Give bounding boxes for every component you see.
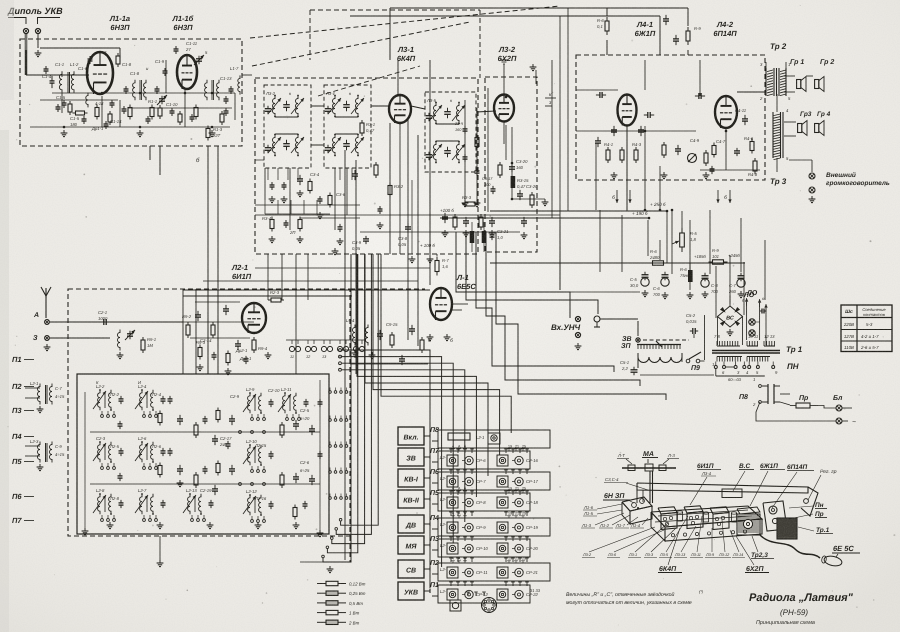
svg-text:R-9: R-9 — [694, 26, 701, 31]
svg-text:60—03: 60—03 — [728, 377, 742, 382]
svg-text:R9-1: R9-1 — [147, 337, 156, 342]
svg-text:С1-9: С1-9 — [155, 59, 165, 64]
svg-text:1,0: 1,0 — [497, 235, 503, 240]
svg-text:Гр3: Гр3 — [800, 111, 812, 118]
svg-text:R1-1: R1-1 — [148, 99, 157, 104]
svg-text:L2-6: L2-6 — [138, 436, 147, 441]
svg-text:0,12 Вт: 0,12 Вт — [349, 582, 366, 587]
svg-text:R-9: R-9 — [712, 248, 719, 253]
svg-text:25: 25 — [522, 557, 526, 561]
svg-text:ЗП: ЗП — [621, 343, 631, 350]
svg-text:С3-17: С3-17 — [482, 177, 493, 181]
svg-text:СР-6: СР-6 — [476, 458, 486, 463]
svg-text:Л2-8: Л2-8 — [109, 496, 120, 501]
svg-text:Др1-1: Др1-1 — [91, 126, 103, 131]
svg-text:R-6: R-6 — [680, 267, 687, 272]
svg-text:С2-9: С2-9 — [230, 394, 240, 399]
svg-text:Рег. гр: Рег. гр — [820, 469, 837, 475]
svg-text:160: 160 — [455, 128, 462, 132]
svg-text:С4-9: С4-9 — [690, 138, 700, 143]
svg-text:R3-1: R3-1 — [366, 122, 375, 127]
svg-text:101: 101 — [712, 254, 719, 259]
svg-text:С2-5: С2-5 — [300, 408, 310, 413]
svg-text:МА: МА — [643, 451, 654, 458]
svg-text:+185б: +185б — [694, 254, 706, 259]
svg-text:ПН: ПН — [787, 362, 799, 371]
svg-text:1: 1 — [753, 377, 755, 382]
svg-text:СВ: СВ — [406, 568, 416, 575]
svg-text:6И1П: 6И1П — [697, 463, 714, 470]
svg-text:0,015: 0,015 — [686, 319, 697, 324]
svg-text:L2-: L2- — [440, 522, 447, 527]
svg-text:Внешний: Внешний — [826, 172, 856, 179]
svg-text:УКВ: УКВ — [404, 590, 418, 597]
svg-text:Гр 1: Гр 1 — [790, 59, 804, 66]
svg-text:СР-18: СР-18 — [526, 500, 539, 505]
svg-text:б: б — [464, 487, 466, 491]
svg-text:ЛО: ЛО — [746, 290, 758, 297]
svg-text:С2-6: С2-6 — [300, 460, 310, 465]
svg-text:R2-3: R2-3 — [270, 290, 280, 295]
svg-text:С-5: С-5 — [630, 277, 637, 282]
svg-text:2-6 и 5-7: 2-6 и 5-7 — [860, 345, 879, 350]
svg-text:22Т: 22Т — [212, 133, 221, 138]
svg-text:Л1-5: Л1-5 — [583, 511, 594, 516]
svg-text:6П14П: 6П14П — [713, 29, 737, 38]
svg-text:110В: 110В — [844, 345, 854, 350]
svg-text:R9-4: R9-4 — [258, 346, 268, 351]
svg-text:700: 700 — [653, 292, 661, 297]
svg-text:С2-10: С2-10 — [268, 388, 280, 393]
svg-text:П4: П4 — [12, 432, 22, 441]
svg-text:СР-20: СР-20 — [526, 546, 539, 551]
svg-text:ДВ: ДВ — [405, 523, 416, 530]
svg-text:21: 21 — [515, 445, 519, 449]
svg-text:б: б — [464, 512, 466, 516]
svg-text:R3-2: R3-2 — [394, 184, 404, 189]
svg-text:СР-17: СР-17 — [526, 479, 539, 484]
svg-text:7 8: 7 8 — [714, 334, 720, 339]
svg-text:0,47: 0,47 — [366, 128, 375, 133]
svg-text:С1-8: С1-8 — [122, 62, 132, 67]
svg-text:Тр 2: Тр 2 — [770, 42, 787, 51]
svg-text:6Е 5С: 6Е 5С — [833, 544, 854, 553]
svg-text:4-18: 4-18 — [95, 101, 104, 106]
svg-text:КВ-II: КВ-II — [403, 498, 420, 505]
svg-text:R-7: R-7 — [442, 258, 449, 263]
svg-text:Бл: Бл — [833, 395, 843, 402]
svg-text:П5: П5 — [12, 457, 22, 466]
svg-text:+ 100 б: + 100 б — [420, 243, 435, 248]
svg-text:R4-3: R4-3 — [632, 142, 642, 147]
svg-text:19: 19 — [508, 557, 512, 561]
svg-text:Пр: Пр — [799, 395, 809, 402]
svg-text:Тр 3: Тр 3 — [770, 177, 787, 186]
svg-text:С2-19: С2-19 — [200, 488, 212, 493]
svg-text:С3-21: С3-21 — [497, 229, 508, 234]
svg-text:С-6: С-6 — [653, 286, 660, 291]
svg-text:5-3: 5-3 — [866, 322, 873, 327]
svg-text:З: З — [33, 335, 38, 342]
svg-text:Л3-3: Л3-3 — [644, 553, 654, 557]
svg-text:С3-20: С3-20 — [526, 184, 538, 189]
svg-text:С2-3: С2-3 — [96, 436, 106, 441]
svg-text:С9-15: С9-15 — [386, 322, 398, 327]
svg-text:6Ж1П: 6Ж1П — [760, 463, 778, 470]
svg-text:С-7: С-7 — [55, 386, 62, 391]
svg-text:С1-5: С1-5 — [56, 95, 66, 100]
svg-text:1 Вт: 1 Вт — [349, 611, 360, 616]
svg-text:ЗВ: ЗВ — [406, 456, 416, 463]
svg-text:0,05: 0,05 — [352, 246, 361, 251]
svg-text:Л3-1: Л3-1 — [397, 45, 414, 54]
svg-text:С1-5: С1-5 — [70, 116, 80, 121]
svg-text:31 33: 31 33 — [530, 588, 541, 593]
svg-text:СР-21: СР-21 — [526, 570, 538, 575]
svg-text:Пр: Пр — [815, 511, 824, 518]
svg-text:1,6: 1,6 — [442, 264, 448, 269]
svg-text:Вкл.: Вкл. — [403, 435, 418, 442]
svg-text:С-8: С-8 — [711, 283, 718, 288]
svg-text:21: 21 — [515, 512, 519, 516]
svg-text:Тр2,3: Тр2,3 — [751, 552, 768, 559]
svg-text:С1-6: С1-6 — [78, 66, 88, 71]
svg-text:L1-7: L1-7 — [230, 66, 239, 71]
svg-text:П8: П8 — [739, 394, 748, 401]
svg-text:6К4П: 6К4П — [659, 566, 677, 573]
svg-text:10 11: 10 11 — [748, 334, 758, 339]
svg-text:30,0: 30,0 — [630, 283, 639, 288]
svg-text:L2-11: L2-11 — [281, 387, 291, 392]
svg-text:Л2-1: Л2-1 — [231, 263, 248, 272]
svg-text:6Х2П: 6Х2П — [746, 566, 764, 573]
svg-text:С1-11: С1-11 — [186, 41, 197, 46]
svg-text:Принципиальная схема: Принципиальная схема — [756, 620, 815, 626]
svg-text:Л3-5: Л3-5 — [659, 553, 669, 557]
svg-text:Л1-2: Л1-2 — [599, 523, 610, 528]
svg-text:L2-1: L2-1 — [30, 381, 38, 386]
svg-text:L2-: L2- — [440, 497, 447, 502]
svg-text:4÷15: 4÷15 — [55, 452, 65, 457]
svg-text:могут отличаться от величин: могут отличаться от величин, указанных в… — [566, 600, 692, 606]
svg-text:6Н ЗП: 6Н ЗП — [604, 493, 625, 500]
svg-text:Л-Т: Л-Т — [617, 453, 625, 458]
svg-text:ЗВ: ЗВ — [622, 336, 632, 343]
svg-text:Диполь УКВ: Диполь УКВ — [7, 6, 63, 16]
svg-text:Л4-1: Л4-1 — [636, 20, 653, 29]
svg-text:Л3-12: Л3-12 — [718, 553, 730, 557]
svg-text:6÷25: 6÷25 — [300, 468, 310, 473]
svg-text:СР-7: СР-7 — [476, 479, 486, 484]
svg-text:Л3-2: Л3-2 — [265, 91, 276, 96]
svg-text:Л2-16: Л2-16 — [254, 496, 267, 501]
svg-text:220В: 220В — [843, 322, 854, 327]
svg-text:L2-1: L2-1 — [476, 435, 484, 440]
svg-text:4: 4 — [452, 512, 454, 516]
svg-text:6Е5С: 6Е5С — [457, 282, 476, 291]
svg-text:Л2-4: Л2-4 — [151, 392, 162, 397]
svg-text:1,8: 1,8 — [690, 237, 696, 242]
svg-text:Л3-1: Л3-1 — [628, 553, 637, 557]
svg-text:Л3-14: Л3-14 — [732, 553, 743, 557]
svg-text:2,2: 2,2 — [621, 366, 628, 371]
svg-text:160: 160 — [516, 165, 524, 170]
svg-text:С4-7: С4-7 — [716, 139, 726, 144]
svg-text:СР-11: СР-11 — [476, 570, 488, 575]
svg-text:0,05: 0,05 — [398, 242, 407, 247]
svg-text:L2-: L2- — [440, 567, 447, 572]
svg-text:2 Вт: 2 Вт — [348, 620, 360, 625]
svg-text:R-6: R-6 — [650, 249, 657, 254]
svg-text:L2-: L2- — [440, 589, 447, 594]
svg-text:Гр 4: Гр 4 — [817, 111, 831, 118]
svg-text:5÷20: 5÷20 — [300, 416, 310, 421]
svg-text:Л1-6: Л1-6 — [583, 505, 594, 510]
svg-text:Радиола „Латвия": Радиола „Латвия" — [749, 592, 854, 604]
svg-text:L2-7: L2-7 — [138, 488, 147, 493]
svg-text:С3-8: С3-8 — [398, 236, 408, 241]
svg-text:6Н3П: 6Н3П — [173, 23, 193, 32]
svg-text:СР-10: СР-10 — [476, 546, 489, 551]
svg-text:2480: 2480 — [649, 255, 660, 260]
svg-text:С3-9: С3-9 — [352, 240, 362, 245]
svg-text:R3-15: R3-15 — [517, 178, 529, 183]
svg-text:75т: 75т — [680, 273, 689, 278]
svg-text:19: 19 — [508, 512, 512, 516]
svg-text:СР-8: СР-8 — [476, 500, 486, 505]
svg-text:4÷15: 4÷15 — [55, 394, 65, 399]
svg-text:4: 4 — [452, 445, 454, 449]
svg-text:0,1: 0,1 — [597, 24, 603, 29]
svg-text:С1-8: С1-8 — [130, 71, 140, 76]
svg-text:П1: П1 — [12, 355, 22, 364]
svg-text:25: 25 — [522, 487, 526, 491]
svg-text:6К4П: 6К4П — [397, 54, 416, 63]
svg-text:И: И — [138, 380, 141, 385]
svg-text:б: б — [612, 195, 615, 201]
svg-text:0,25 Вт: 0,25 Вт — [349, 591, 366, 596]
svg-text:0,5 Вт: 0,5 Вт — [349, 601, 363, 606]
svg-text:П9: П9 — [691, 365, 700, 372]
svg-text:6Н3П: 6Н3П — [110, 23, 130, 32]
svg-text:L2-9: L2-9 — [246, 387, 255, 392]
svg-text:R3-3: R3-3 — [462, 195, 472, 200]
svg-text:Л2-2: Л2-2 — [109, 392, 120, 397]
svg-text:С3-6: С3-6 — [336, 192, 346, 197]
svg-text:+ 250 б: + 250 б — [650, 202, 666, 207]
svg-text:6Х2П: 6Х2П — [498, 54, 517, 63]
svg-text:Л3-2: Л3-2 — [582, 553, 592, 557]
svg-text:Л1-1б: Л1-1б — [172, 14, 194, 23]
svg-text:С1-4: С1-4 — [42, 74, 52, 79]
svg-text:~: ~ — [852, 419, 856, 426]
svg-text:Гр 2: Гр 2 — [820, 59, 834, 66]
svg-text:L2-: L2- — [440, 543, 447, 548]
svg-text:L2-3: L2-3 — [30, 439, 39, 444]
svg-text:6И1П: 6И1П — [232, 272, 252, 281]
svg-text:Пн: Пн — [815, 502, 824, 509]
svg-text:(РН-59): (РН-59) — [780, 608, 808, 617]
svg-text:4-2 и 1-7: 4-2 и 1-7 — [861, 334, 879, 339]
svg-text:Л1-7: Л1-7 — [615, 523, 626, 528]
svg-text:R9-3: R9-3 — [196, 340, 206, 345]
svg-text:Л3-9: Л3-9 — [705, 553, 715, 557]
svg-text:R-5: R-5 — [690, 231, 697, 236]
svg-text:громкоговоритель: громкоговоритель — [826, 180, 890, 187]
svg-text:1М: 1М — [147, 343, 153, 348]
svg-text:R1-3: R1-3 — [213, 127, 223, 132]
svg-text:260: 260 — [728, 289, 737, 294]
svg-text:контактов: контактов — [863, 312, 886, 317]
svg-text:В.С: В.С — [739, 463, 751, 470]
svg-text:R-6: R-6 — [597, 18, 604, 23]
svg-text:СР-12: СР-12 — [476, 592, 489, 597]
svg-text:L2-8: L2-8 — [96, 488, 105, 493]
svg-text:С1-1: С1-1 — [55, 62, 64, 67]
svg-text:С3-20: С3-20 — [516, 159, 528, 164]
svg-text:Л2-5: Л2-5 — [109, 444, 120, 449]
svg-text:25: 25 — [522, 445, 526, 449]
svg-text:Л1-1а: Л1-1а — [109, 14, 130, 23]
svg-text:П7: П7 — [12, 516, 22, 525]
svg-text:6П14П: 6П14П — [787, 464, 808, 471]
svg-text:Л1-3: Л1-3 — [581, 523, 592, 528]
svg-text:0,47: 0,47 — [517, 184, 526, 189]
svg-text:б: б — [724, 195, 727, 201]
svg-text:СР-19: СР-19 — [526, 525, 539, 530]
svg-text:12 13: 12 13 — [764, 334, 775, 339]
svg-text:R3-4: R3-4 — [262, 216, 272, 221]
svg-text:L2-12: L2-12 — [246, 489, 257, 494]
svg-text:R4-6: R4-6 — [744, 136, 754, 141]
svg-text:1000: 1000 — [98, 316, 108, 321]
svg-text:КВ-I: КВ-I — [404, 477, 419, 484]
svg-text:19: 19 — [508, 487, 512, 491]
svg-text:Тр 1: Тр 1 — [786, 345, 803, 354]
svg-text:R9-2: R9-2 — [182, 314, 192, 319]
svg-text:+100 б: +100 б — [440, 208, 454, 213]
svg-text:27: 27 — [185, 47, 191, 52]
svg-text:С-9: С-9 — [55, 444, 62, 449]
svg-text:Л2-6: Л2-6 — [151, 444, 162, 449]
svg-text:1: 1 — [712, 362, 714, 367]
svg-text:+ 190 б: + 190 б — [632, 211, 648, 216]
svg-text:21: 21 — [515, 557, 519, 561]
svg-text:180: 180 — [70, 122, 78, 127]
svg-text:(*): (*) — [699, 589, 704, 594]
svg-text:L2-: L2- — [440, 455, 447, 460]
svg-text:4: 4 — [452, 487, 454, 491]
svg-text:Л3-4: Л3-4 — [701, 471, 712, 476]
svg-text:21: 21 — [515, 487, 519, 491]
svg-text:Л-1: Л-1 — [456, 273, 469, 282]
svg-text:127В: 127В — [844, 334, 854, 339]
svg-text:СР-16: СР-16 — [526, 458, 539, 463]
svg-text:23-Ч: 23-Ч — [454, 122, 463, 126]
svg-text:Вх.УНЧ: Вх.УНЧ — [551, 323, 581, 332]
svg-text:С3-4: С3-4 — [310, 172, 320, 177]
svg-text:П6: П6 — [12, 492, 22, 501]
svg-text:С1-13: С1-13 — [220, 76, 232, 81]
svg-text:Тр.1: Тр.1 — [816, 527, 830, 534]
svg-text:б: б — [464, 557, 466, 561]
svg-text:Л4-2: Л4-2 — [716, 20, 734, 29]
svg-text:6Ж1П: 6Ж1П — [635, 29, 656, 38]
svg-text:Л3-5: Л3-5 — [426, 98, 437, 103]
svg-text:С4-11: С4-11 — [735, 108, 746, 113]
svg-text:Л3-2: Л3-2 — [498, 45, 516, 54]
svg-text:С1-10: С1-10 — [166, 102, 178, 107]
svg-text:С5-2: С5-2 — [686, 313, 696, 318]
svg-text:L2-13: L2-13 — [186, 488, 197, 493]
svg-text:П2: П2 — [12, 382, 22, 391]
svg-text:Др2-1: Др2-1 — [235, 348, 247, 353]
svg-text:П3: П3 — [12, 406, 22, 415]
svg-text:L2-: L2- — [440, 476, 447, 481]
svg-text:ВС: ВС — [726, 316, 735, 322]
svg-text:Л1-4: Л1-4 — [630, 523, 641, 528]
svg-text:11: 11 — [290, 355, 294, 359]
svg-text:Л3-13: Л3-13 — [674, 553, 686, 557]
svg-text:Величины „R" и „С", отмеченные: Величины „R" и „С", отмеченные звёздочко… — [566, 592, 675, 598]
svg-text:СР-9: СР-9 — [476, 525, 486, 530]
svg-text:б: б — [464, 445, 466, 449]
svg-text:25: 25 — [522, 512, 526, 516]
svg-text:С2-17: С2-17 — [220, 436, 232, 441]
svg-text:Шс: Шс — [845, 309, 853, 315]
svg-text:С5-1: С5-1 — [620, 360, 629, 365]
svg-text:19: 19 — [508, 445, 512, 449]
svg-text:С2-1: С2-1 — [98, 310, 107, 315]
svg-text:МЯ: МЯ — [406, 544, 418, 551]
svg-text:Л-З: Л-З — [667, 453, 675, 458]
svg-text:СЗ,С-4: СЗ,С-4 — [605, 477, 619, 482]
svg-text:А: А — [33, 312, 39, 319]
svg-text:Л2-15: Л2-15 — [254, 443, 267, 448]
svg-text:б: б — [450, 338, 453, 344]
svg-text:700: 700 — [711, 289, 719, 294]
svg-text:300: 300 — [484, 183, 491, 187]
svg-text:б: б — [428, 338, 431, 344]
svg-text:4: 4 — [452, 557, 454, 561]
svg-text:Л3-11: Л3-11 — [690, 553, 701, 557]
svg-text:R4-1: R4-1 — [604, 142, 613, 147]
svg-text:2П: 2П — [289, 230, 296, 235]
svg-text:R4-8: R4-8 — [748, 172, 758, 177]
svg-text:П7: П7 — [430, 448, 440, 455]
svg-text:Л3-6: Л3-6 — [607, 553, 617, 557]
